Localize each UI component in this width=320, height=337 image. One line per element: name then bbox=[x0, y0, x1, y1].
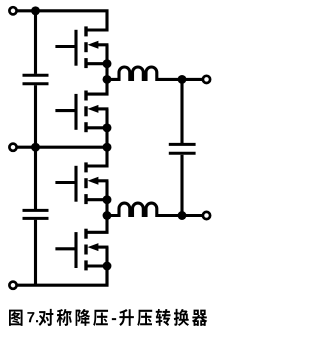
inductor L2 bbox=[107, 203, 203, 215]
node: switch node A junction bbox=[103, 75, 112, 84]
capacitor C2 bottom plate bbox=[23, 217, 49, 220]
wire: top rail with Q1 drain drop bbox=[17, 11, 107, 30]
caption: 图 7. 对称降压-升压转换器 bbox=[9, 309, 207, 326]
node: middle rail / left rail junction bbox=[31, 143, 40, 152]
capacitor C1 bottom plate bbox=[23, 82, 49, 85]
wire: Q2 body/source rail down to middle rail bbox=[105, 109, 108, 147]
node: Q3 source junction bbox=[103, 195, 112, 204]
wire: left rail, middle rail to C2 bbox=[34, 147, 37, 209]
transistor Q1 (N-channel MOSFET) bbox=[55, 26, 108, 68]
terminal: input - (bottom left) bbox=[9, 282, 16, 289]
wire: Q3 body/source rail down to switch node B and Q4 drain bbox=[87, 181, 107, 233]
wire: output rail, node A down to C3 bbox=[180, 79, 183, 143]
node: switch node B junction bbox=[103, 211, 112, 220]
wire: output rail, C3 down to node B bbox=[180, 155, 183, 216]
wire: middle rail down to Q3 drain bbox=[87, 147, 107, 166]
capacitor C3 top plate bbox=[169, 143, 196, 146]
node: Q2 source junction bbox=[103, 123, 112, 132]
transistor Q2 (N-channel MOSFET) bbox=[55, 91, 108, 133]
wire: bottom rail with Q4 source rise bbox=[17, 266, 107, 285]
capacitor C2 top plate bbox=[23, 209, 49, 212]
wire: left rail, C1 to middle rail bbox=[34, 85, 37, 147]
wire: Q1 body/source rail down to switch node A and Q2 drain bbox=[87, 45, 107, 94]
node: Q4 source junction bbox=[103, 262, 112, 271]
terminal: input + (top left) bbox=[9, 7, 16, 14]
wire: Q4 body/source rail bbox=[105, 247, 108, 285]
node: middle rail junction bbox=[103, 143, 112, 152]
transistor Q3 (N-channel MOSFET) bbox=[55, 162, 108, 204]
capacitor C1 top plate bbox=[23, 74, 49, 77]
node: top rail / left rail junction bbox=[31, 6, 40, 15]
node: output node B junction bbox=[178, 211, 187, 220]
inductor L1 bbox=[107, 67, 203, 79]
node: Q1 source junction bbox=[103, 59, 112, 68]
transistor Q4 (N-channel MOSFET) bbox=[55, 229, 108, 271]
terminal: output + (right) bbox=[203, 76, 210, 83]
terminal: output - (right) bbox=[203, 212, 210, 219]
terminal: midpoint (left centre) bbox=[9, 144, 16, 151]
capacitor C3 bottom plate bbox=[169, 152, 196, 155]
wire: left rail, C2 to bottom rail bbox=[34, 220, 37, 285]
wire: left rail, top to C1 bbox=[34, 11, 37, 74]
node: output node A junction bbox=[178, 75, 187, 84]
wire: middle rail bbox=[17, 146, 109, 149]
